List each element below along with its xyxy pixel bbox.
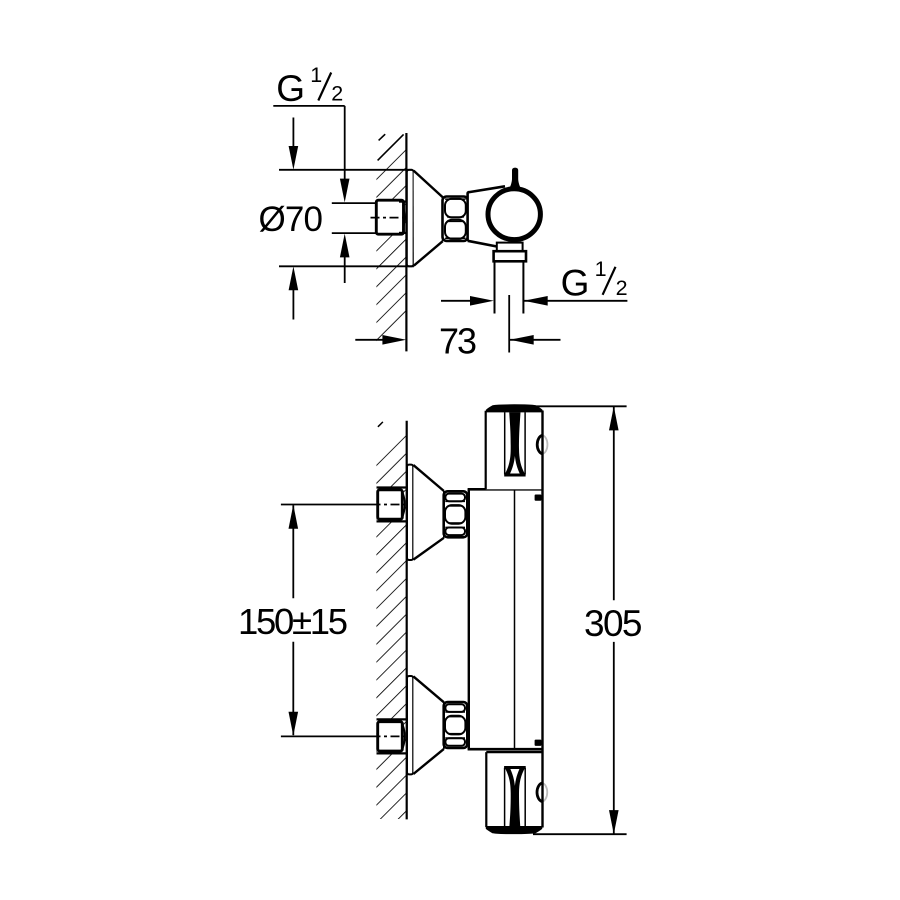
dim label G1/2 (top left) xyxy=(273,63,344,109)
svg-text:1: 1 xyxy=(595,257,607,281)
svg-text:Ø70: Ø70 xyxy=(259,200,324,239)
bottom union: escutcheon cone xyxy=(413,676,444,774)
extension lines Ø70 thread xyxy=(332,202,377,204)
dim 73 xyxy=(355,321,560,362)
outlet pipe (side view) xyxy=(495,261,524,313)
top union: centerline xyxy=(281,504,372,506)
svg-text:1: 1 xyxy=(310,63,322,87)
wall surface line (front view) xyxy=(406,421,408,820)
bottom union: wall lips xyxy=(377,718,407,720)
pipe centerline extension xyxy=(508,295,510,353)
temperature lever (side view) xyxy=(509,168,520,189)
escutcheon cone (side view) xyxy=(414,171,443,266)
outlet shoulder (side view) xyxy=(497,243,523,252)
bottom union: centerline xyxy=(281,735,372,737)
svg-text:G: G xyxy=(276,68,305,109)
valve body (front view) xyxy=(468,489,543,749)
dim 305 xyxy=(533,406,643,834)
extra hatch tick top xyxy=(379,134,386,140)
svg-text:2: 2 xyxy=(616,276,628,300)
svg-text:73: 73 xyxy=(439,321,477,362)
top union: wall lips xyxy=(377,486,407,488)
escutcheon flange (side view) xyxy=(407,170,416,266)
top union: nut (front) xyxy=(444,491,468,537)
bottom union: nut (front) xyxy=(444,702,468,748)
top union: escutcheon flange xyxy=(407,465,416,560)
top union: escutcheon cone xyxy=(413,465,444,559)
extension line top of escutcheon xyxy=(279,169,412,171)
svg-text:G: G xyxy=(561,262,590,303)
dim arrows G1/2 outlet xyxy=(441,296,627,306)
label G1/2 (right) with leader xyxy=(561,257,628,303)
svg-text:305: 305 xyxy=(584,603,643,644)
dim arrows Ø70 (x=293.4) xyxy=(289,118,299,320)
boundary hatch stroke xyxy=(378,134,404,160)
bottom union: escutcheon flange xyxy=(407,676,416,774)
union nut (side view) xyxy=(443,197,468,241)
valve body (side view) xyxy=(468,186,514,246)
centerline dash-dot (side view) xyxy=(371,217,407,219)
wall hatching (side view) xyxy=(376,133,406,353)
in-wall union square (side view) xyxy=(376,200,406,234)
bottom union: in-wall square xyxy=(378,722,405,751)
top knob (front view) xyxy=(486,404,548,489)
body/knob right edge xyxy=(541,411,543,828)
svg-text:150±15: 150±15 xyxy=(238,601,348,642)
bottom knob (front view) xyxy=(486,752,548,834)
dim 150±15 xyxy=(238,505,348,736)
outlet collar (side view) xyxy=(494,251,526,261)
svg-text:2: 2 xyxy=(331,82,343,106)
wall surface line (side view) xyxy=(405,133,407,351)
thermostat handle circle (side view) xyxy=(488,189,540,240)
dim arrows G1/2 thread (x=344.7) xyxy=(340,106,350,283)
extension line bottom of escutcheon xyxy=(279,265,414,267)
wall hatching (front view) xyxy=(376,421,406,819)
top union: in-wall square xyxy=(378,490,405,519)
